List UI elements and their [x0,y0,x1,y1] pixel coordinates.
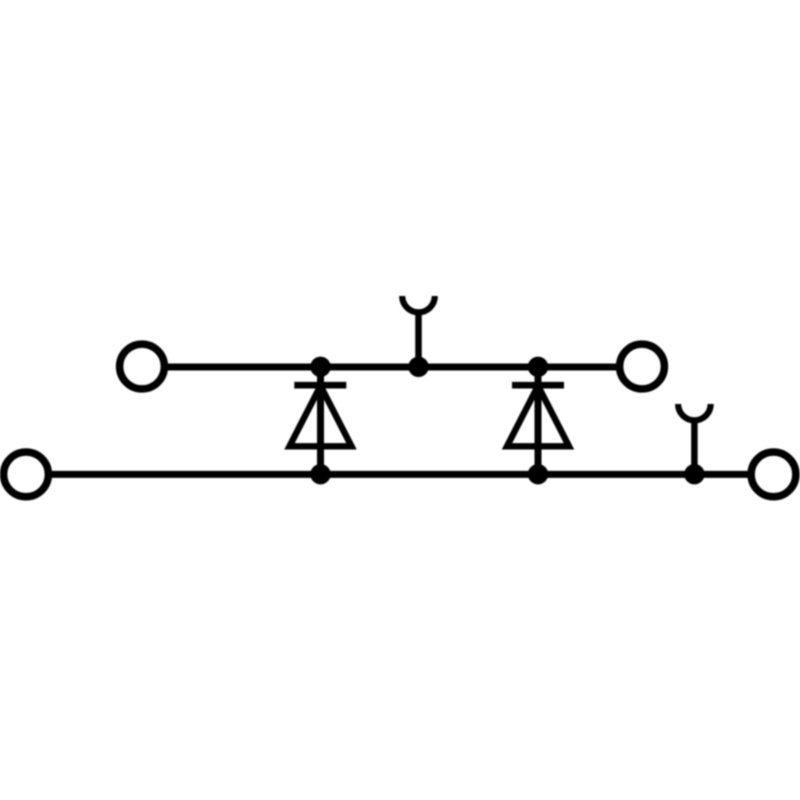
test socket TP1 cup (open semicircle) [402,296,435,312]
wire (top rail from terminal 1 to terminal 2) [166,364,618,371]
terminal 3 (bottom-left clamping point) [4,452,49,497]
node (junction dot D2 / bottom rail) [528,464,548,484]
terminal 1 (top-left clamping point) [120,344,165,389]
node (junction dot TP1 / top rail) [408,357,428,377]
test socket TP2 cup (open semicircle) [678,404,711,420]
terminal 4 (bottom-right clamping point) [751,452,796,497]
wire (test socket TP1 stem) [415,312,422,368]
wire (diode D2 vertical branch between rails) [535,367,542,474]
diode D2 cathode bar [512,382,564,389]
diode D1 cathode bar [294,382,346,389]
wire (bottom rail from terminal 3 to terminal 4) [50,471,750,478]
terminal 2 (top-right clamping point) [620,344,665,389]
node (junction dot D1 / bottom rail) [310,464,330,484]
diode D1 triangle (anode, pointing up) [290,386,352,447]
wire (test socket TP2 stem) [691,420,698,475]
node (junction dot D2 / top rail) [528,357,548,377]
node (junction dot TP2 / bottom rail) [684,464,704,484]
node (junction dot D1 / top rail) [310,357,330,377]
diode D2 triangle (anode, pointing up) [507,386,569,447]
wire (diode D1 vertical branch between rails) [317,367,324,474]
